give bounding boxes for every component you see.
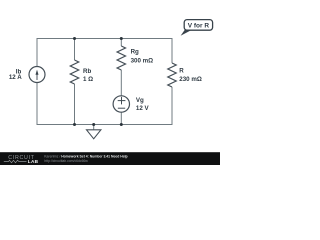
wire Rg-to-Vg [120, 70, 122, 96]
node junction Rb bottom [73, 123, 76, 126]
svg-text:Karenlinz / Homework Set 4: Nu: Karenlinz / Homework Set 4: Number 3.41 … [44, 154, 127, 158]
node junction ground [92, 123, 95, 126]
current source Ib [29, 67, 45, 83]
wire Rb lower lead [74, 84, 76, 125]
ground [87, 130, 101, 139]
wire Rg upper lead [120, 39, 122, 47]
wire Vg lower lead [120, 112, 122, 124]
wire ground stub [93, 125, 95, 130]
wire Rb upper lead [74, 39, 76, 61]
resistor Rb [70, 60, 78, 84]
node junction Rg top [120, 37, 123, 40]
svg-text:Vg: Vg [136, 97, 144, 104]
node junction Rb top [73, 37, 76, 40]
svg-text:http://circuitlab.com/c6dc66w: http://circuitlab.com/c6dc66w [44, 159, 88, 163]
voltage source Vg [113, 96, 129, 112]
svg-text:300 mΩ: 300 mΩ [131, 58, 154, 65]
annotation callout V for R [181, 20, 213, 36]
watermark logo resistor glyph [4, 160, 27, 162]
svg-text:230 mΩ: 230 mΩ [179, 76, 202, 83]
resistor R [168, 63, 176, 87]
svg-text:V for R: V for R [188, 22, 210, 29]
watermark bar [0, 152, 220, 165]
svg-text:Rg: Rg [131, 49, 139, 56]
svg-text:1 Ω: 1 Ω [83, 76, 93, 83]
node junction Vg bottom [120, 123, 123, 126]
svg-text:R: R [179, 68, 184, 75]
svg-text:LAB: LAB [28, 159, 39, 164]
svg-text:12 V: 12 V [136, 105, 150, 112]
svg-text:Rb: Rb [83, 68, 91, 75]
resistor Rg [117, 46, 125, 70]
wire top bus [37, 39, 172, 67]
svg-text:12 A: 12 A [9, 74, 22, 81]
wire bottom bus [37, 83, 172, 125]
